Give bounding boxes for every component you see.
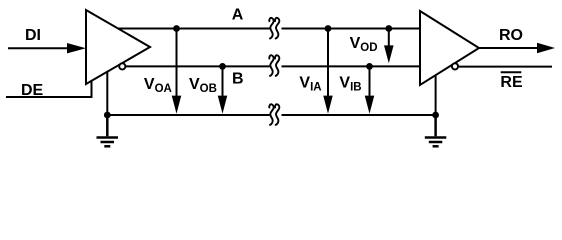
driver inverting bubble <box>119 63 125 69</box>
svg-text:VIA: VIA <box>299 75 321 94</box>
junction node B-VOB <box>219 63 226 70</box>
measurement arrow VOB <box>222 66 224 98</box>
arrowhead DI <box>67 43 86 53</box>
break symbol on wire B <box>269 55 279 76</box>
svg-text:VIB: VIB <box>339 75 361 94</box>
junction node driver ground <box>104 112 111 119</box>
svg-text:DI: DI <box>25 27 41 44</box>
svg-text:A: A <box>232 7 244 24</box>
svg-text:RO: RO <box>499 27 523 44</box>
svg-text:B: B <box>232 70 244 87</box>
wire ground bus segment left <box>107 114 269 116</box>
junction node A-VIA <box>325 25 332 32</box>
receiver op-amp triangle <box>420 11 479 85</box>
svg-text:RE: RE <box>500 74 523 91</box>
measurement arrow VOD <box>388 29 390 48</box>
driver op-amp triangle <box>86 10 150 84</box>
measurement arrow VIB <box>369 66 371 98</box>
svg-text:VOD: VOD <box>350 35 378 54</box>
measurement arrow VOA <box>176 29 178 99</box>
measurement arrow VIA <box>327 29 329 99</box>
wire driver ground stub <box>106 72 108 115</box>
break symbol on ground bus <box>269 104 279 125</box>
svg-text:VOB: VOB <box>189 76 217 95</box>
arrowhead RO <box>537 43 555 53</box>
break symbol on wire A <box>269 18 279 39</box>
wire A segment left <box>118 28 270 30</box>
ground symbol right <box>425 115 447 146</box>
wire DI input <box>8 47 69 49</box>
svg-text:DE: DE <box>21 82 44 99</box>
junction node receiver ground <box>432 112 439 119</box>
wire DE input <box>6 80 92 98</box>
receiver inverting bubble <box>452 63 458 69</box>
wire ground bus segment right <box>282 114 436 116</box>
junction node B-VIB <box>366 63 373 70</box>
wire B segment right <box>282 65 421 67</box>
ground symbol left <box>97 115 119 146</box>
junction node A-VOD <box>385 25 392 32</box>
svg-text:VOA: VOA <box>144 76 172 95</box>
wire B segment left <box>125 65 269 67</box>
junction node A-VOA <box>173 25 180 32</box>
wire receiver ground stub <box>435 75 437 115</box>
wire RE input <box>459 66 552 68</box>
wire A segment right <box>282 28 421 30</box>
wire RO output <box>479 47 538 49</box>
